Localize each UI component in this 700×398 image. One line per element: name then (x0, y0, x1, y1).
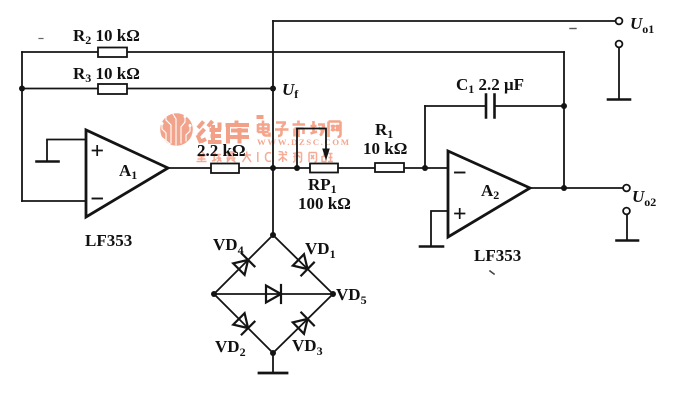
resistor R1 (375, 163, 404, 172)
svg-text:Uo1: Uo1 (630, 14, 654, 36)
watermark logo circle (160, 107, 193, 146)
op-amp A1 plus sign (93, 146, 103, 155)
junction dot bridge right (330, 291, 336, 297)
junction dot bridge bottom (270, 350, 276, 356)
wire: right vertical from R2 wire down to A2 output (563, 52, 565, 188)
svg-text:R1: R1 (375, 120, 393, 141)
scan speck (570, 28, 576, 30)
wire: C1 left lead (425, 105, 485, 107)
junction dot main line x273 (270, 165, 276, 171)
svg-text:VD2: VD2 (215, 337, 246, 359)
wire: Uf vertical line from top wire to bridge top (272, 21, 274, 235)
scan speck (39, 38, 43, 40)
potentiometer RP1 body (310, 164, 338, 173)
watermark TM (257, 115, 264, 119)
svg-text:10 kΩ: 10 kΩ (363, 139, 407, 158)
wire: R3 wire from left vertical to Uf node (22, 88, 273, 90)
wire: A1 inverting input (22, 200, 86, 202)
svg-text:C1 2.2 μF: C1 2.2 μF (456, 75, 524, 96)
watermark big CJK 维库 (198, 121, 250, 144)
diode VD1 (293, 254, 314, 275)
wire: A1 non-inverting input to ground (47, 140, 86, 162)
junction dot C1 left (422, 165, 428, 171)
terminal Uo1 (616, 18, 623, 25)
op-amp A2 (448, 151, 530, 237)
op-amp A1 (86, 130, 168, 217)
wire: A2 output to Uo2 terminal (530, 187, 623, 189)
terminal Uo2 ground post (623, 208, 630, 215)
wire: C1 left vertical (424, 106, 426, 168)
op-amp A2 minus sign (455, 172, 465, 174)
wire: main signal line A1 output to A2 inverting input (168, 167, 448, 169)
svg-text:VD4: VD4 (213, 235, 244, 257)
wiper arrowhead (322, 149, 330, 161)
diode VD5 (middle) (266, 285, 281, 303)
diode VD4 (233, 254, 254, 275)
svg-text:WWW.DZSC.COM: WWW.DZSC.COM (257, 137, 351, 147)
junction dot bridge left (211, 291, 217, 297)
ground below bridge (259, 372, 287, 375)
watermark CJK 全球最大IC采购网站 (197, 152, 334, 163)
watermark CJK 电子市场网 (258, 121, 341, 138)
junction dot A2 output (561, 185, 567, 191)
svg-text:VD1: VD1 (305, 239, 336, 261)
wire: C1 right lead (495, 105, 564, 107)
op-amp A1 minus sign (93, 198, 103, 200)
terminal Uo2 (623, 185, 630, 192)
svg-text:Uf: Uf (282, 80, 299, 101)
capacitor C1 (486, 95, 495, 118)
resistor 2.2k (211, 164, 239, 174)
ground at A2 non-inverting input (420, 245, 443, 248)
resistor R3 (98, 84, 127, 94)
wire: left vertical from R2 wire down to A1 inverting input (21, 52, 23, 201)
diode bridge arms (214, 235, 333, 353)
svg-text:LF353: LF353 (85, 231, 132, 250)
svg-text:LF353: LF353 (474, 246, 521, 265)
junction dot R3 left (19, 86, 25, 92)
diode VD3 (293, 313, 314, 334)
svg-text:VD5: VD5 (336, 285, 367, 307)
wire: top wire to Uo1 terminal (273, 20, 616, 22)
resistor R2 (98, 48, 127, 58)
svg-text:2.2 kΩ: 2.2 kΩ (197, 141, 246, 160)
op-amp A2 plus sign (455, 209, 465, 218)
ground below Uo1 (608, 98, 630, 101)
junction dot C1 right (561, 103, 567, 109)
wire: bridge middle horizontal (214, 293, 333, 295)
wire: R2 feedback top wire from left vertical to right vertical (22, 51, 564, 53)
wire: RP1 wiper loop (297, 129, 326, 169)
wire: Uo1 ground stem (618, 47, 620, 99)
scan speck (490, 271, 494, 274)
svg-text:100 kΩ: 100 kΩ (298, 194, 351, 213)
svg-text:R2 10 kΩ: R2 10 kΩ (73, 26, 140, 47)
wire: A2 non-inverting input to ground (431, 211, 448, 246)
wire: Uo2 ground stem (626, 215, 628, 241)
diode VD2 (233, 313, 254, 334)
svg-text:R3 10 kΩ: R3 10 kΩ (73, 64, 140, 85)
svg-text:RP1: RP1 (308, 175, 337, 196)
junction dot wiper (294, 165, 300, 171)
wire: bridge bottom ground stem (272, 353, 274, 372)
junction dot Uf node (270, 86, 276, 92)
svg-text:VD3: VD3 (292, 336, 323, 358)
svg-text:Uo2: Uo2 (632, 187, 656, 209)
junction dot bridge top (270, 232, 276, 238)
ground at A1 non-inverting input (37, 160, 59, 163)
ground below Uo2 (617, 239, 639, 242)
terminal Uo1 ground post (616, 41, 623, 48)
